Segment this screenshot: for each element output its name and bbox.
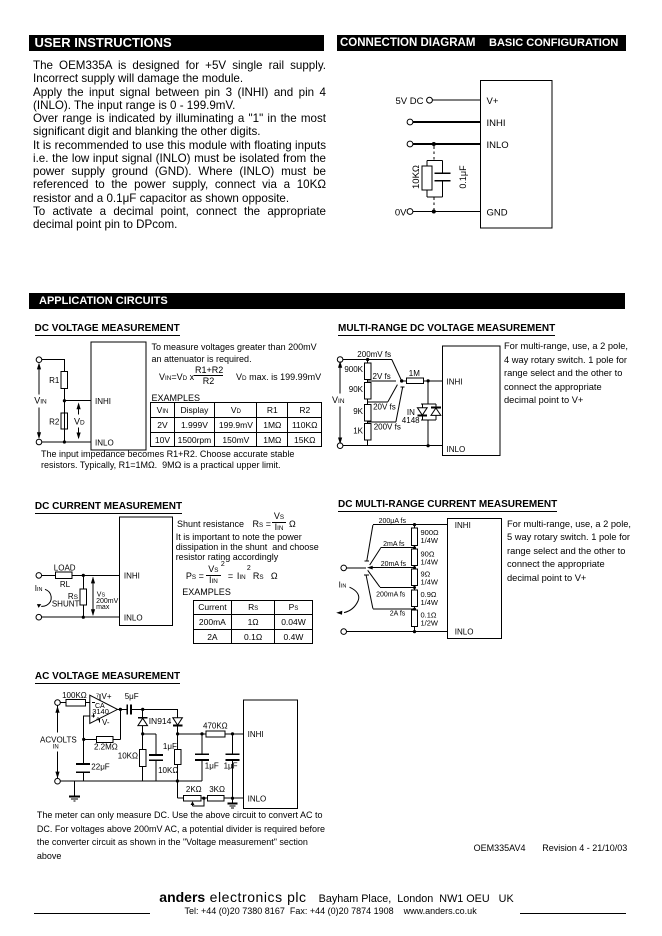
svg-text:INLO: INLO bbox=[248, 795, 267, 804]
diode D1 1N4148 (anode up) bbox=[417, 404, 427, 420]
ACVOLTS IN arrow bbox=[55, 705, 59, 778]
node shunt top junction bbox=[82, 574, 85, 577]
multirange dc voltage: right text bbox=[504, 340, 628, 408]
wire tap 20V fs bbox=[368, 401, 388, 403]
svg-text:LOAD: LOAD bbox=[54, 564, 76, 573]
label SHUNT bbox=[52, 599, 80, 608]
wire dashed RC to GND bbox=[433, 197, 435, 210]
node chain top junction bbox=[366, 358, 369, 361]
wire tap 2V fs bbox=[368, 380, 396, 382]
wire INLO bbox=[42, 441, 91, 443]
label 2mA fs bbox=[383, 541, 405, 548]
value label 10K ohm (rotated) bbox=[411, 165, 422, 189]
node after 5uF bbox=[141, 708, 144, 711]
terminal input top bbox=[55, 700, 61, 706]
label Vin bbox=[332, 395, 345, 405]
pin label INHI bbox=[487, 118, 506, 129]
terminal input bottom bbox=[55, 778, 61, 784]
pin number 4 and label V- bbox=[96, 717, 110, 727]
node INHI junction bbox=[427, 379, 430, 382]
terminal input top bbox=[36, 573, 42, 579]
wire junction down to diodes bbox=[427, 381, 429, 404]
section heading bbox=[35, 672, 180, 684]
resistor 10K ohm bbox=[422, 161, 432, 198]
node 2A tap bbox=[413, 608, 416, 611]
doc number / revision bbox=[474, 843, 628, 853]
ground symbol bbox=[69, 796, 80, 801]
wire 0V to GND bbox=[413, 211, 481, 213]
wire 20mA tap bbox=[372, 567, 414, 569]
capacitor 0.1uF bbox=[435, 161, 451, 198]
resistor 100K ohm bbox=[66, 699, 85, 705]
terminal input bottom bbox=[341, 629, 347, 635]
svg-text:2KΩ: 2KΩ bbox=[186, 785, 202, 794]
wire R1 to INLO rail bbox=[63, 389, 65, 443]
svg-text:2A fs: 2A fs bbox=[390, 610, 406, 617]
svg-text:900K: 900K bbox=[344, 365, 363, 374]
node capB top junction bbox=[231, 732, 234, 735]
svg-text:IIN: IIN bbox=[339, 580, 347, 589]
node INLO junction bbox=[231, 797, 234, 800]
node 0V label bbox=[395, 207, 407, 218]
resistor 10K ohm (second) bbox=[174, 734, 180, 781]
svg-text:INHI: INHI bbox=[447, 377, 463, 386]
Vin arrow bbox=[37, 363, 41, 440]
potentiometer 2K ohm bbox=[183, 795, 200, 801]
svg-text:20V fs: 20V fs bbox=[373, 402, 396, 411]
value label 100K ohm bbox=[62, 691, 87, 700]
label 1K bbox=[353, 427, 363, 436]
pin label INLO bbox=[248, 795, 267, 804]
svg-text:7: 7 bbox=[96, 693, 99, 699]
pin label INHI bbox=[124, 571, 140, 580]
header bar: APPLICATION CIRCUITS bbox=[29, 293, 625, 309]
wire to 100K bbox=[60, 702, 66, 704]
Vd arrow bbox=[77, 402, 81, 439]
label 2A fs bbox=[390, 610, 406, 617]
node INLO junction bbox=[427, 444, 430, 447]
svg-text:IIN: IIN bbox=[35, 584, 43, 593]
node switch pole bbox=[400, 379, 403, 382]
svg-text:1/2W: 1/2W bbox=[421, 618, 439, 627]
wire INHI bbox=[413, 121, 481, 123]
pin label INLO bbox=[455, 628, 474, 637]
switch contact 200uA with tick bbox=[364, 525, 373, 561]
terminal pole bbox=[341, 565, 347, 571]
wire top input to R1 bbox=[42, 360, 65, 372]
capacitor 1uF (capA) bbox=[195, 734, 209, 781]
wire 2K to 3K bbox=[201, 797, 208, 799]
pin label V+ bbox=[487, 96, 499, 107]
node INHI junction bbox=[63, 399, 66, 402]
value label 0.1uF (rotated) bbox=[458, 165, 468, 189]
node chain top bbox=[413, 523, 416, 526]
dc current: paragraph bbox=[176, 532, 319, 563]
module box bbox=[442, 346, 500, 456]
terminal INLO bbox=[407, 141, 413, 147]
value label 0.1 ohm 1/2W bbox=[421, 610, 439, 627]
pin number 7 and label V+ bbox=[96, 692, 112, 701]
wire top to chain and 200mV tap bbox=[343, 359, 392, 361]
module box bbox=[120, 517, 173, 626]
resistor 1K bbox=[364, 423, 370, 445]
pin label INLO bbox=[95, 438, 114, 447]
svg-text:INLO: INLO bbox=[455, 628, 474, 637]
svg-text:1K: 1K bbox=[353, 427, 363, 436]
wire diode rail top bbox=[421, 403, 436, 405]
svg-text:V+: V+ bbox=[487, 96, 499, 107]
wire ground rail bbox=[60, 780, 202, 782]
Iin curved arrow bbox=[336, 587, 359, 615]
svg-text:22μF: 22μF bbox=[91, 762, 110, 771]
label 200uA fs bbox=[379, 518, 407, 525]
terminal input bottom bbox=[36, 439, 42, 445]
svg-text:INLO: INLO bbox=[447, 445, 466, 454]
resistor 0.9 ohm bbox=[411, 590, 417, 610]
wire RC loop bottom bbox=[427, 196, 443, 198]
value label 90 ohm 1/4W bbox=[421, 550, 439, 567]
wire diodes to INLO bbox=[427, 420, 429, 446]
svg-text:20mA fs: 20mA fs bbox=[381, 561, 407, 568]
pin label INHI bbox=[447, 377, 463, 386]
svg-text:INLO: INLO bbox=[124, 613, 143, 622]
label IN 4148 bbox=[402, 408, 420, 425]
wire ground drop bbox=[74, 781, 76, 796]
label 200mV fs bbox=[357, 350, 391, 359]
svg-text:5μF: 5μF bbox=[125, 692, 139, 701]
opamp minus input marker bbox=[92, 701, 95, 703]
section heading bbox=[35, 502, 182, 514]
node A junction on INLO bbox=[432, 142, 436, 146]
pin label INLO bbox=[124, 613, 143, 622]
EXAMPLES label bbox=[152, 393, 201, 403]
svg-text:IN914: IN914 bbox=[149, 716, 172, 726]
svg-text:VIN: VIN bbox=[332, 395, 345, 405]
footer rule left bbox=[34, 913, 150, 914]
label Rs bbox=[68, 592, 79, 601]
wire INLO rail bbox=[343, 445, 443, 447]
label 1M bbox=[409, 369, 420, 378]
pin label INHI bbox=[95, 397, 111, 406]
label R1 bbox=[49, 376, 60, 385]
section heading bbox=[338, 324, 555, 336]
svg-text:2V fs: 2V fs bbox=[373, 372, 391, 381]
pin V- stub bbox=[98, 718, 100, 722]
resistor 900 ohm bbox=[411, 525, 417, 549]
op-amp U1 CA3140 bbox=[90, 695, 118, 723]
wire opamp output bbox=[118, 708, 128, 710]
wire 5V DC to V+ bbox=[432, 99, 480, 101]
svg-text:200μA fs: 200μA fs bbox=[379, 518, 407, 525]
pin label INHI bbox=[248, 730, 264, 739]
node 2mA tap bbox=[413, 546, 416, 549]
svg-text:V-: V- bbox=[102, 718, 110, 727]
wire to diode D2 bbox=[143, 709, 178, 717]
label Iin bbox=[35, 584, 43, 593]
value labels 1uF 1uF bbox=[205, 761, 238, 770]
svg-text:0.1μF: 0.1μF bbox=[458, 165, 468, 189]
ac voltage note bbox=[37, 809, 325, 864]
wire 2A tap bbox=[373, 608, 415, 610]
svg-text:VIN: VIN bbox=[34, 395, 47, 405]
dc voltage examples table bbox=[150, 402, 322, 447]
resistor 10K ohm (first) bbox=[140, 734, 146, 781]
svg-text:5V DC: 5V DC bbox=[396, 96, 424, 107]
node B junction on GND bbox=[432, 210, 436, 214]
capacitor 1uF (capB) bbox=[225, 734, 239, 798]
wire pole to 1M bbox=[402, 380, 407, 382]
wire INLO bbox=[413, 143, 481, 145]
resistor 900K bbox=[364, 360, 370, 383]
svg-text:10KΩ: 10KΩ bbox=[411, 165, 422, 189]
wire tap 200V fs bbox=[368, 421, 396, 423]
terminal INHI bbox=[407, 119, 413, 125]
node D2 bottom junction bbox=[176, 732, 179, 735]
footer rule right bbox=[520, 913, 626, 914]
terminal 5V DC bbox=[427, 97, 433, 103]
svg-text:90K: 90K bbox=[349, 385, 364, 394]
dc current examples table bbox=[193, 600, 313, 645]
switch contact from 200mV tap bbox=[392, 360, 402, 381]
label Vs 200mV max bbox=[96, 591, 119, 611]
resistor 3K ohm bbox=[208, 795, 225, 801]
svg-text:INHI: INHI bbox=[487, 118, 506, 129]
svg-text:3KΩ: 3KΩ bbox=[209, 785, 225, 794]
dc voltage: right text bbox=[152, 341, 317, 366]
wire feedback down from output bbox=[119, 709, 121, 739]
svg-text:VD: VD bbox=[74, 417, 85, 427]
wire to 2K pot bbox=[177, 797, 183, 799]
svg-text:1μF: 1μF bbox=[205, 761, 219, 770]
wire RC loop top bbox=[427, 160, 443, 162]
resistor 1M bbox=[406, 378, 423, 384]
switch contact 2mA bbox=[370, 548, 381, 565]
diode D1 1N914 (cathode up) bbox=[138, 709, 148, 734]
wire rail down to pot row bbox=[176, 781, 178, 798]
svg-text:ACVOLTS: ACVOLTS bbox=[40, 735, 77, 744]
terminal 0V bbox=[407, 209, 413, 215]
dc voltage: formula Vin=Vd x (R1+R2)/R2 bbox=[158, 364, 160, 366]
svg-text:INHI: INHI bbox=[95, 397, 111, 406]
svg-text:9K: 9K bbox=[353, 407, 363, 416]
terminal input bottom bbox=[337, 443, 343, 449]
wire INHI bbox=[64, 400, 91, 402]
label 2V fs bbox=[373, 372, 391, 381]
svg-text:1μF: 1μF bbox=[224, 761, 238, 770]
switch wiper arrowhead bbox=[367, 566, 373, 570]
capacitor 5uF bbox=[127, 704, 142, 714]
svg-text:4: 4 bbox=[96, 717, 99, 723]
value label 2.2M ohm bbox=[94, 742, 118, 751]
node feedback junction bbox=[82, 738, 85, 741]
svg-text:200V fs: 200V fs bbox=[374, 423, 401, 432]
module box bbox=[91, 342, 146, 450]
Vin arrow bbox=[338, 361, 342, 444]
switch contact 2A with tick bbox=[364, 575, 373, 609]
label Vin bbox=[34, 395, 47, 405]
svg-text:V+: V+ bbox=[102, 692, 112, 701]
label CA 3140 bbox=[92, 703, 109, 716]
label Vd bbox=[74, 417, 85, 427]
terminal input top bbox=[36, 357, 42, 363]
label 20V fs bbox=[373, 402, 396, 411]
svg-text:R1: R1 bbox=[49, 376, 60, 385]
node 5V DC label bbox=[396, 96, 424, 107]
svg-text:RL: RL bbox=[60, 580, 71, 589]
node chain bottom junction bbox=[413, 630, 416, 633]
Vs arrow bbox=[91, 577, 95, 616]
dc current: shunt resistance formula bbox=[176, 510, 178, 512]
wire INHI rail to 470K bbox=[178, 733, 206, 735]
value label 9 ohm 1/4W bbox=[421, 570, 439, 587]
value label 10K ohm bbox=[158, 766, 178, 775]
wire 3K to INLO bbox=[224, 797, 243, 799]
user instructions body text bbox=[33, 59, 326, 231]
resistor R2 bbox=[61, 413, 67, 429]
section heading bbox=[35, 324, 180, 336]
wire INLO bbox=[42, 616, 120, 618]
value label 900 ohm 1/4W bbox=[421, 528, 440, 545]
node rail junction bbox=[176, 779, 179, 782]
header bar: CONNECTION DIAGRAM / BASIC CONFIGURATION bbox=[337, 35, 626, 51]
svg-text:10KΩ: 10KΩ bbox=[158, 766, 178, 775]
svg-text:2mA fs: 2mA fs bbox=[383, 541, 405, 548]
node D1 bottom junction bbox=[141, 732, 144, 735]
label 200mA fs bbox=[376, 591, 406, 598]
terminal input top bbox=[337, 357, 343, 363]
wire INLO rail bbox=[347, 631, 448, 633]
wire 200uA tap bbox=[373, 524, 415, 526]
svg-text:INHI: INHI bbox=[455, 521, 471, 530]
switch contact 200mA bbox=[368, 570, 380, 587]
section heading bbox=[338, 500, 557, 512]
node output junction bbox=[119, 708, 122, 711]
pot wiper arrow bbox=[191, 798, 204, 806]
resistor R1 bbox=[61, 372, 67, 389]
svg-text:max: max bbox=[96, 604, 110, 611]
Iin curved arrow bbox=[37, 589, 51, 608]
node shunt bottom junction bbox=[82, 616, 85, 619]
svg-text:GND: GND bbox=[487, 208, 508, 219]
svg-text:470KΩ: 470KΩ bbox=[203, 722, 228, 731]
svg-text:200mA fs: 200mA fs bbox=[376, 591, 406, 598]
switch contact 200V with tick bbox=[396, 387, 405, 422]
wire plus input down bbox=[84, 716, 90, 740]
terminal input bottom bbox=[36, 614, 42, 620]
module box bbox=[244, 700, 298, 809]
resistor RL (LOAD) bbox=[56, 572, 72, 578]
pin label INHI bbox=[455, 521, 471, 530]
svg-text:INHI: INHI bbox=[124, 571, 140, 580]
value label 3K ohm bbox=[209, 785, 225, 794]
label ACVOLTS IN bbox=[40, 735, 77, 750]
svg-text:IN: IN bbox=[53, 745, 59, 751]
node capA top junction bbox=[200, 732, 203, 735]
resistor 9K bbox=[364, 405, 370, 424]
label 20mA fs bbox=[381, 561, 407, 568]
value label 5uF bbox=[125, 692, 139, 701]
footer tel line bbox=[185, 906, 477, 916]
ground symbol at INLO bbox=[228, 798, 238, 808]
node 20mA tap bbox=[413, 566, 416, 569]
diode D2 1N4148 (anode down) bbox=[431, 404, 441, 420]
footer company line bbox=[159, 889, 513, 907]
dc current: power formula bbox=[185, 561, 187, 563]
svg-text:INHI: INHI bbox=[248, 730, 264, 739]
value label 470K ohm bbox=[203, 722, 228, 731]
svg-text:2.2MΩ: 2.2MΩ bbox=[94, 742, 118, 751]
label R2 bbox=[49, 418, 60, 427]
wire INHI from chain top to box bbox=[415, 524, 448, 526]
label RL bbox=[60, 580, 71, 589]
pin label INLO bbox=[447, 445, 466, 454]
capacitor 22uF bbox=[76, 739, 90, 781]
pin V+ stub bbox=[99, 694, 101, 700]
wire diode rail bottom bbox=[421, 419, 436, 421]
EXAMPLES label bbox=[182, 587, 231, 597]
svg-text:SHUNT: SHUNT bbox=[52, 599, 80, 608]
wire 200mA tap bbox=[380, 587, 415, 589]
wire RL to INHI bbox=[72, 574, 120, 576]
svg-text:10KΩ: 10KΩ bbox=[118, 752, 138, 761]
svg-text:INLO: INLO bbox=[95, 438, 114, 447]
svg-text:200mV fs: 200mV fs bbox=[357, 350, 391, 359]
wire 2mA tap bbox=[381, 547, 415, 549]
svg-text:1/4W: 1/4W bbox=[421, 577, 439, 586]
module box bbox=[448, 519, 502, 639]
svg-text:100KΩ: 100KΩ bbox=[62, 691, 87, 700]
resistor 9 ohm bbox=[411, 569, 417, 590]
value label 22uF bbox=[91, 762, 110, 771]
resistor 2.2M ohm bbox=[84, 736, 121, 742]
label 900K bbox=[344, 365, 363, 374]
svg-text:4148: 4148 bbox=[402, 416, 420, 425]
svg-text:1/4W: 1/4W bbox=[421, 536, 439, 545]
label 9K bbox=[353, 407, 363, 416]
svg-text:0V: 0V bbox=[395, 207, 407, 218]
node wiper junction bbox=[202, 797, 205, 800]
resistor 470K ohm bbox=[206, 731, 244, 737]
resistor 90K bbox=[364, 383, 370, 405]
wire to RL bbox=[42, 574, 56, 576]
switch contact 20V bbox=[388, 385, 398, 402]
pin label INLO bbox=[487, 140, 509, 151]
svg-text:1/4W: 1/4W bbox=[421, 598, 439, 607]
value label 1uF bbox=[163, 742, 177, 751]
node INLO junction bbox=[63, 440, 66, 443]
svg-text:INLO: INLO bbox=[487, 140, 509, 151]
wire 100K to opamp bbox=[85, 702, 90, 704]
pin label GND bbox=[487, 208, 508, 219]
dc voltage note bbox=[41, 449, 294, 471]
wire pole bbox=[347, 567, 366, 569]
opamp plus input marker bbox=[92, 714, 95, 717]
label Iin bbox=[339, 580, 347, 589]
wire 1M to INHI bbox=[423, 380, 442, 382]
value label 0.9 ohm 1/4W bbox=[421, 590, 439, 607]
header bar: USER INSTRUCTIONS bbox=[29, 35, 324, 51]
label 200V fs bbox=[374, 423, 401, 432]
label LOAD bbox=[54, 564, 76, 573]
label 90K bbox=[349, 385, 364, 394]
svg-text:R2: R2 bbox=[49, 418, 60, 427]
module box U1 (OEM335A) bbox=[481, 81, 553, 229]
resistor 90 ohm bbox=[411, 549, 417, 569]
svg-text:1/4W: 1/4W bbox=[421, 557, 439, 566]
value label 10K ohm bbox=[118, 752, 138, 761]
value label 2K ohm bbox=[186, 785, 202, 794]
svg-text:1M: 1M bbox=[409, 369, 420, 378]
